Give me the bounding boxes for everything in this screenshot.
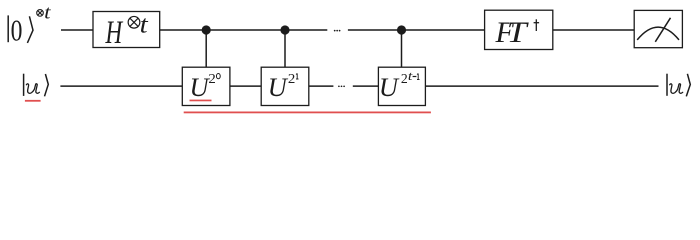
svg-text:U: U	[379, 73, 400, 102]
svg-text:T: T	[507, 17, 530, 49]
svg-text:2: 2	[288, 72, 295, 87]
svg-text:0: 0	[11, 14, 23, 48]
svg-text:H: H	[105, 16, 124, 52]
svg-text:U: U	[268, 73, 289, 102]
svg-text:2: 2	[401, 71, 408, 86]
svg-text:2: 2	[208, 72, 215, 87]
